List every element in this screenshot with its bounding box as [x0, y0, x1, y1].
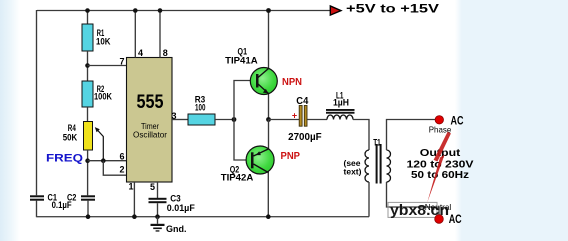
node C3 rail junction [155, 214, 160, 219]
wire C2 bottom [87, 201, 89, 217]
svg-text:+: + [292, 110, 297, 120]
terminal AC phase [435, 116, 443, 124]
wire pin 2 [103, 161, 126, 176]
transistor Q2 TIP42A [221, 146, 274, 184]
wire R1 top lead [87, 11, 89, 25]
svg-text:Gnd.: Gnd. [166, 224, 187, 234]
wire pin 4 stub [134, 11, 136, 58]
wire bottom rail [37, 216, 370, 218]
svg-text:TIP42A: TIP42A [221, 173, 254, 184]
svg-text:1: 1 [128, 182, 133, 192]
svg-text:text): text) [344, 167, 362, 177]
svg-text:10K: 10K [96, 36, 111, 47]
svg-text:1µH: 1µH [333, 98, 349, 108]
terminal AC neutral [435, 215, 444, 224]
svg-text:0.01µF: 0.01µF [167, 203, 195, 214]
wire T1 primary bottom [368, 182, 370, 217]
resistor R1 [82, 24, 111, 51]
wire Q2 collector [267, 170, 269, 217]
wire top rail [37, 10, 331, 12]
ground [151, 217, 187, 234]
resistor R2 [82, 81, 112, 107]
capacitor C3 [149, 194, 195, 215]
svg-text:AC: AC [449, 212, 462, 226]
node Q2 collector rail [266, 214, 271, 219]
wire C4 to L1 [307, 119, 327, 121]
svg-text:100K: 100K [94, 92, 112, 103]
node base junction [232, 117, 237, 122]
wire T1 secondary top [387, 120, 436, 151]
wire emitter node to C4 [269, 119, 300, 121]
node top rail R1 [85, 8, 90, 13]
wire pin 5 stub [157, 182, 159, 198]
svg-text:+5V to +15V: +5V to +15V [346, 2, 439, 16]
supply arrow [330, 6, 341, 15]
wire pin 7 [88, 65, 127, 67]
wire Q1 collector [268, 11, 270, 73]
svg-text:5: 5 [150, 182, 155, 192]
capacitor C2 [67, 193, 95, 204]
wire pin 1 stub [133, 182, 135, 217]
svg-text:555: 555 [137, 92, 164, 113]
svg-text:Oscillator: Oscillator [133, 130, 167, 140]
inductor L1 [326, 91, 355, 120]
node wiper tie junction [101, 158, 106, 163]
wire L1 to T1 primary [353, 120, 369, 151]
svg-text:AC: AC [451, 114, 464, 128]
wire pin 3 [172, 119, 188, 121]
wire C3 bottom [157, 203, 159, 217]
svg-text:8: 8 [163, 48, 168, 58]
lightning bolt [427, 132, 451, 203]
wire R1 to R2 [87, 51, 89, 81]
svg-text:T1: T1 [373, 138, 381, 148]
node R4 pin6 junction [85, 158, 90, 163]
IC U1 555 timer [127, 58, 173, 183]
svg-text:50 to 60Hz: 50 to 60Hz [411, 169, 469, 181]
resistor R4 potentiometer [63, 122, 93, 151]
node emitter junction [266, 117, 271, 122]
svg-text:TIP41A: TIP41A [225, 56, 258, 67]
svg-text:2700µF: 2700µF [288, 132, 322, 143]
capacitor C1 [30, 193, 72, 212]
svg-text:2: 2 [119, 165, 124, 175]
wire pin 8 stub [159, 11, 161, 58]
wire R3 to bases [215, 119, 234, 121]
wire emitters to Q2 [268, 120, 270, 151]
svg-text:C2: C2 [67, 193, 77, 204]
label AC phase [429, 114, 464, 135]
node pin1 rail [132, 214, 137, 219]
capacitor C4 [288, 96, 322, 143]
wire left rail upper [36, 10, 38, 195]
node Q1 collector rail [266, 8, 271, 13]
svg-text:C4: C4 [296, 96, 308, 107]
node pin7 junction [85, 63, 90, 68]
label output [407, 147, 474, 181]
transistor Q1 TIP41A [225, 46, 277, 94]
wire T1 secondary bottom [387, 182, 440, 215]
svg-text:PNP: PNP [281, 151, 301, 162]
wire pin 6 [88, 160, 127, 162]
svg-text:6: 6 [119, 152, 124, 162]
svg-text:NPN: NPN [282, 77, 302, 88]
svg-text:Neutral: Neutral [425, 202, 452, 212]
node pin8 rail [158, 8, 163, 13]
svg-text:7: 7 [119, 57, 124, 67]
wire transistor bases [234, 81, 257, 161]
wire left rail lower [36, 201, 38, 218]
resistor R3 [188, 95, 215, 126]
wire R2 to R4 [87, 107, 89, 122]
wire R4 bottom to C2 [87, 150, 89, 195]
node C2 rail junction [86, 214, 91, 219]
node pin4 rail [133, 8, 138, 13]
svg-text:100: 100 [195, 103, 206, 114]
svg-text:FREQ: FREQ [46, 153, 84, 165]
potentiometer wiper arrow [95, 127, 104, 161]
label see text [343, 158, 361, 177]
svg-text:50K: 50K [63, 133, 78, 144]
svg-text:Phase: Phase [429, 124, 452, 134]
watermark box [388, 202, 449, 219]
wire Q1 emitter lead [268, 90, 270, 120]
transformer T1 [365, 138, 391, 184]
svg-text:4: 4 [138, 48, 143, 58]
